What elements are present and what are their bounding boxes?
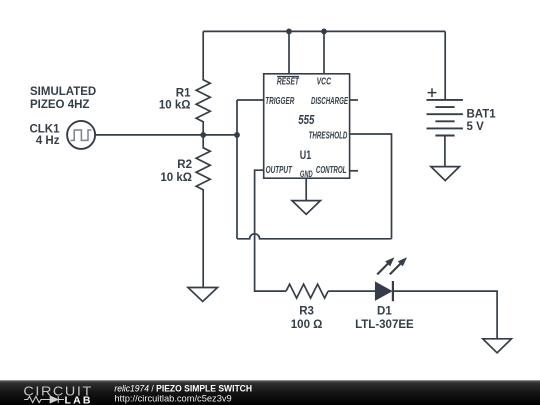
svg-text:LTL-307EE: LTL-307EE <box>355 319 414 331</box>
clock source CLK1 <box>67 121 95 149</box>
ground (below R2) <box>188 288 218 302</box>
LED arrow 2 <box>390 263 401 274</box>
svg-text:DISCHARGE: DISCHARGE <box>311 96 348 107</box>
footer bar <box>0 380 540 405</box>
battery BAT1 lead from rail <box>444 31 446 100</box>
battery BAT1 plates <box>427 99 463 101</box>
wire D1 to ground <box>393 291 497 339</box>
svg-text:LAB: LAB <box>65 394 93 405</box>
svg-text:TRIGGER: TRIGGER <box>265 96 295 107</box>
junction dot clk node <box>200 132 206 138</box>
wire output to R3 <box>255 170 287 291</box>
LED arrow 2 head <box>398 257 407 266</box>
svg-text:RESET: RESET <box>277 76 300 87</box>
svg-text:OUTPUT: OUTPUT <box>266 165 293 176</box>
svg-text:R1: R1 <box>176 88 191 100</box>
svg-text:100 Ω: 100 Ω <box>291 319 323 331</box>
battery plus sign <box>428 88 437 97</box>
wire control stub <box>350 170 358 172</box>
clock waveform glyph <box>71 130 92 140</box>
svg-text:R3: R3 <box>299 306 314 318</box>
IC U1 555 body <box>264 74 350 178</box>
wire trigger node to threshold (vertical) <box>236 100 238 239</box>
wire top rail <box>203 30 445 32</box>
ground (right of D1) <box>483 339 512 353</box>
ground (U1 GND) <box>292 201 320 215</box>
wire trigger stub <box>237 99 264 101</box>
wire threshold riser <box>350 134 392 239</box>
wire R3 to D1 <box>328 290 376 292</box>
wire discharge stub <box>350 99 358 101</box>
svg-text:THRESHOLD: THRESHOLD <box>309 130 348 141</box>
svg-text:10 kΩ: 10 kΩ <box>159 100 191 112</box>
svg-text:R2: R2 <box>177 159 192 171</box>
LED arrow 1 <box>377 263 388 274</box>
wire clk to trigger node <box>95 134 237 136</box>
junction dot vcc/rail <box>321 29 327 35</box>
wire gnd pin <box>305 178 307 200</box>
diode D1 cathode bar <box>392 281 394 301</box>
svg-text:http://circuitlab.com/c5ez3v9: http://circuitlab.com/c5ez3v9 <box>114 393 231 403</box>
svg-text:GND: GND <box>300 169 313 179</box>
logo resistor-diode symbol <box>24 396 64 403</box>
wire vcc to rail <box>323 31 325 73</box>
resistor R1 <box>196 31 210 134</box>
wire with hop over output wire <box>237 234 392 239</box>
svg-text:SIMULATED: SIMULATED <box>30 86 96 98</box>
diode D1 triangle <box>376 283 391 300</box>
svg-text:4 Hz: 4 Hz <box>36 135 60 147</box>
svg-text:PIZEO 4HZ: PIZEO 4HZ <box>30 99 89 111</box>
LED arrow 1 head <box>385 257 394 266</box>
svg-text:VCC: VCC <box>317 76 332 87</box>
pin RESET overline <box>277 76 299 78</box>
svg-text:555: 555 <box>298 112 315 127</box>
svg-text:U1: U1 <box>300 148 311 162</box>
resistor R3 <box>286 284 328 298</box>
wire reset to rail <box>288 31 290 73</box>
svg-text:5 V: 5 V <box>467 121 485 133</box>
svg-text:CONTROL: CONTROL <box>316 165 347 176</box>
svg-text:D1: D1 <box>377 306 392 318</box>
junction dot trigger node <box>234 132 240 138</box>
svg-text:relic1974 / PIEZO SIMPLE SWITC: relic1974 / PIEZO SIMPLE SWITCH <box>114 383 252 393</box>
battery bottom lead <box>444 136 446 167</box>
svg-text:BAT1: BAT1 <box>467 108 497 120</box>
junction dot reset/rail <box>286 29 292 35</box>
ground (battery) <box>431 167 460 181</box>
svg-text:10 kΩ: 10 kΩ <box>160 172 192 184</box>
resistor R2 <box>196 135 210 288</box>
